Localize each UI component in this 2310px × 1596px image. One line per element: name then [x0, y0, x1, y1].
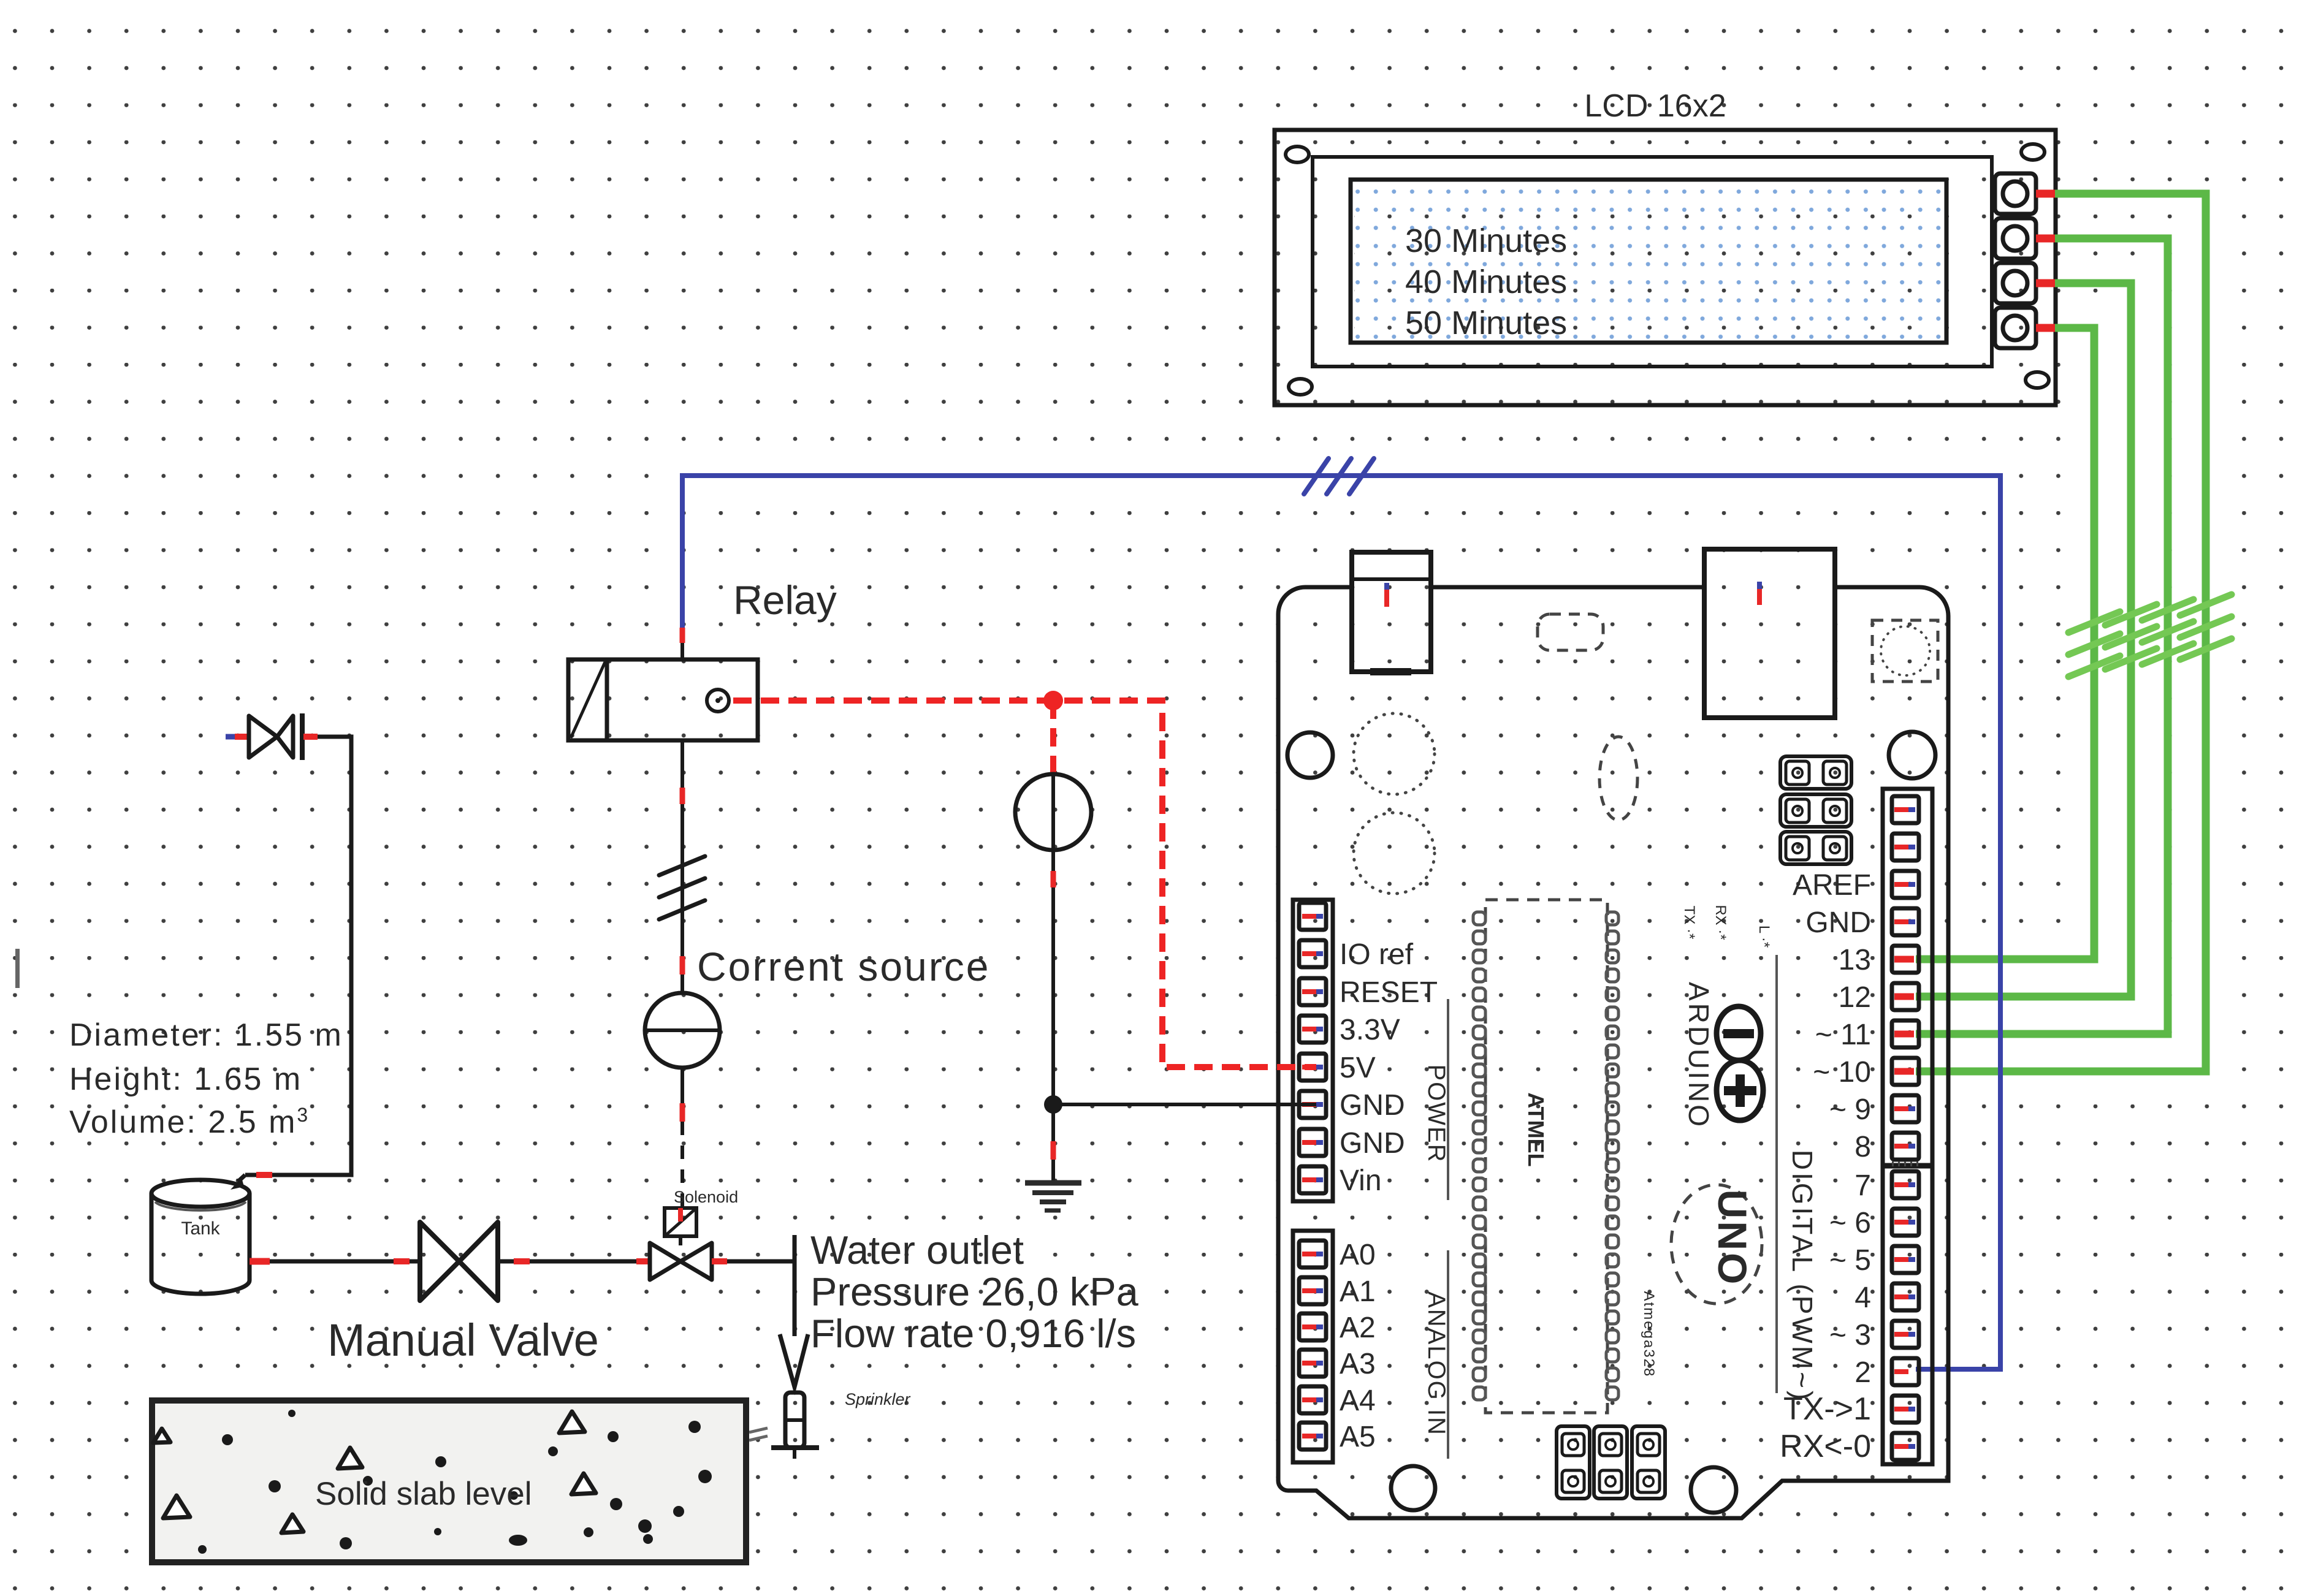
digital pin 7 — [1892, 1171, 1919, 1198]
digital pin nc — [1892, 796, 1919, 823]
analog header pin A3 — [1299, 1350, 1326, 1377]
digital pin 8 — [1892, 1133, 1919, 1160]
ICSP pad column 1 — [1557, 1426, 1590, 1499]
digital pin GND — [1892, 908, 1919, 935]
analog header pin A1 — [1299, 1277, 1326, 1304]
Arduino UNO board outline — [1278, 587, 1948, 1518]
manual valve — [420, 1222, 498, 1301]
wire junction to ground — [1051, 1104, 1055, 1141]
digital pin 4 — [1892, 1283, 1919, 1310]
digital header bottom — [1883, 1166, 1932, 1464]
minus terminal — [1717, 1006, 1761, 1060]
svg-text:TX ·*: TX ·* — [1681, 906, 1698, 940]
dashed pad rounded rect — [1538, 614, 1603, 650]
analog header pin A4 — [1299, 1386, 1326, 1413]
dotted via circle 1 — [1354, 713, 1435, 794]
solid slab — [152, 1400, 746, 1562]
svg-text:Flow rate 0,916 l/s: Flow rate 0,916 l/s — [810, 1311, 1136, 1356]
svg-text:Solid slab level: Solid slab level — [315, 1476, 532, 1512]
svg-text:A0: A0 — [1340, 1239, 1376, 1271]
LCD screen — [1351, 180, 1946, 343]
pipe tank to manual valve — [270, 1260, 394, 1264]
jumper pad row 2 — [1780, 794, 1851, 827]
LCD screw hole 2 — [2021, 144, 2045, 160]
green wire bus slashes — [2068, 595, 2232, 677]
LCD pin 4 connector — [1995, 308, 2036, 348]
power header pin GND — [1299, 1129, 1326, 1156]
svg-text:LCD 16x2: LCD 16x2 — [1584, 88, 1726, 124]
digital pin nc — [1892, 834, 1919, 861]
LCD screw hole 4 — [2026, 372, 2049, 388]
wire green LCD pin 1 to Arduino — [1916, 194, 2206, 1071]
analog header pin A2 — [1299, 1313, 1326, 1340]
LCD pin 1 connector — [1995, 173, 2036, 214]
svg-text:GND: GND — [1340, 1089, 1405, 1122]
svg-text:Sprinkler: Sprinkler — [845, 1390, 911, 1408]
LCD pin 2 connector — [1995, 218, 2036, 259]
svg-text:RX<-0: RX<-0 — [1780, 1429, 1871, 1464]
svg-text:Water outlet: Water outlet — [810, 1228, 1024, 1272]
power header pin GND — [1299, 1091, 1326, 1118]
voltage source — [1051, 774, 1055, 871]
power header pin 5V — [1299, 1054, 1326, 1081]
svg-text:4: 4 — [1854, 1282, 1871, 1314]
wire break slashes — [659, 856, 705, 919]
svg-text:ATMEL: ATMEL — [1523, 1092, 1549, 1166]
relay contact circle — [707, 690, 729, 712]
analog header — [1293, 1231, 1333, 1462]
svg-text:A3: A3 — [1340, 1348, 1376, 1380]
check valve — [249, 713, 302, 760]
svg-text:ARDUINO: ARDUINO — [1683, 982, 1715, 1129]
svg-text:Tank: Tank — [181, 1218, 220, 1239]
svg-text:RESET: RESET — [1340, 976, 1438, 1009]
red junction node — [1043, 691, 1063, 710]
svg-text:5V: 5V — [1340, 1052, 1376, 1084]
svg-text:2: 2 — [1854, 1356, 1871, 1389]
svg-text:Volume: 2.5 m3: Volume: 2.5 m3 — [69, 1104, 310, 1140]
svg-text:8: 8 — [1854, 1131, 1871, 1163]
svg-text:Solenoid: Solenoid — [674, 1188, 738, 1206]
power jack — [1704, 549, 1835, 718]
mounting hole bottom-right — [1691, 1467, 1736, 1513]
wire green LCD pin 2 to Arduino — [1916, 238, 2168, 1034]
LCD pin 1 red stub — [2036, 190, 2059, 198]
digital header top — [1883, 789, 1932, 1165]
scrollbar artifact left margin — [15, 949, 20, 988]
svg-text:POWER: POWER — [1423, 1064, 1450, 1163]
svg-text:50 Minutes: 50 Minutes — [1405, 305, 1567, 341]
relay top pin — [680, 628, 685, 643]
ground symbol — [1025, 1183, 1081, 1210]
analog header pin A5 — [1299, 1423, 1326, 1450]
check valve inlet stubs — [226, 734, 235, 740]
svg-text:Pressure 26,0 kPa: Pressure 26,0 kPa — [810, 1269, 1139, 1314]
current source circle — [645, 993, 720, 1068]
svg-text:Corrent source: Corrent source — [697, 944, 991, 989]
svg-text:~ 5: ~ 5 — [1829, 1244, 1871, 1277]
dashed wire to solenoid — [680, 1122, 684, 1208]
node GND junction — [1044, 1095, 1062, 1114]
svg-text:GND: GND — [1340, 1127, 1405, 1160]
digital pin RX<-0 — [1892, 1433, 1919, 1460]
power header pin nc — [1299, 903, 1326, 930]
wire check valve to tank — [245, 737, 351, 1175]
UNO logo — [1671, 1185, 1762, 1304]
ICSP pad column 2 — [1594, 1426, 1627, 1499]
mounting hole top-right — [1889, 732, 1935, 778]
svg-text:A2: A2 — [1340, 1312, 1376, 1344]
digital pin TX->1 — [1892, 1396, 1919, 1423]
svg-text:7: 7 — [1854, 1169, 1871, 1202]
wire red dashed relay to 5V — [733, 701, 1316, 1067]
jumper pad row 1 — [1780, 756, 1851, 789]
sprinkler — [785, 1393, 804, 1448]
digital pin ~ 6 — [1892, 1209, 1919, 1236]
svg-text:A4: A4 — [1340, 1385, 1376, 1417]
svg-text:3.3V: 3.3V — [1340, 1014, 1400, 1046]
svg-text:~ 9: ~ 9 — [1829, 1093, 1871, 1126]
power header pin RESET — [1299, 978, 1326, 1005]
plus terminal — [1717, 1060, 1763, 1120]
svg-text:ANALOG IN: ANALOG IN — [1423, 1291, 1450, 1436]
svg-text:Vin: Vin — [1340, 1165, 1382, 1197]
svg-text:AREF: AREF — [1793, 869, 1871, 902]
power header pin 3.3V — [1299, 1016, 1326, 1043]
LCD pin 4 red stub — [2036, 324, 2059, 332]
digital pin 2 — [1892, 1358, 1919, 1385]
dashed square top-right — [1872, 620, 1938, 682]
wire blue relay to Arduino pin 2 — [682, 476, 2000, 1369]
LCD pin 3 connector — [1995, 263, 2036, 303]
USB connector — [1352, 552, 1431, 672]
svg-text:RX ·*: RX ·* — [1712, 905, 1729, 940]
digital pin AREF — [1892, 871, 1919, 898]
relay bottom pin / wire to current source — [680, 740, 684, 788]
svg-text:~ 3: ~ 3 — [1829, 1319, 1871, 1351]
tank — [151, 1180, 250, 1294]
LCD pin 2 red stub — [2036, 235, 2059, 243]
svg-text:A5: A5 — [1340, 1421, 1376, 1453]
ICSP pad column 3 — [1632, 1426, 1665, 1499]
svg-text:IO ref: IO ref — [1340, 938, 1414, 971]
svg-text:30 Minutes: 30 Minutes — [1405, 222, 1567, 259]
digital pin ~ 3 — [1892, 1321, 1919, 1348]
digital pin ~ 5 — [1892, 1246, 1919, 1273]
analog header pin A0 — [1299, 1241, 1326, 1267]
svg-text:L ·*: L ·* — [1756, 925, 1772, 948]
header gap dotted mark — [1892, 1161, 1919, 1166]
svg-text:TX->1: TX->1 — [1783, 1391, 1871, 1427]
wire green LCD pin 4 to Arduino — [1916, 328, 2094, 959]
svg-text:Height: 1.65 m: Height: 1.65 m — [69, 1062, 302, 1097]
svg-text:Relay: Relay — [733, 577, 837, 623]
svg-text:~ 11: ~ 11 — [1815, 1019, 1871, 1051]
svg-text:Manual Valve: Manual Valve — [327, 1315, 599, 1366]
svg-text:Diameter: 1.55 m: Diameter: 1.55 m — [69, 1017, 343, 1053]
jumper pad row 3 — [1780, 832, 1851, 864]
power header pin Vin — [1299, 1166, 1326, 1193]
dashed ellipse pad — [1599, 737, 1637, 820]
water outlet drop — [793, 1235, 797, 1336]
current source bottom pin — [680, 1068, 684, 1103]
digital pin ~ 11 — [1892, 1020, 1919, 1047]
svg-text:~ 6: ~ 6 — [1829, 1207, 1871, 1239]
mounting hole bottom-left — [1391, 1466, 1435, 1510]
mounting hole top-left — [1287, 732, 1333, 778]
LCD pin 3 red stub — [2036, 279, 2059, 287]
pipe manual valve to solenoid valve — [498, 1260, 514, 1264]
relay body — [568, 659, 758, 740]
LCD screw hole 3 — [1289, 379, 1312, 395]
svg-text:Atmega328: Atmega328 — [1641, 1291, 1657, 1378]
ATMEL chip dashed outline — [1485, 900, 1607, 1413]
dotted via circle 2 — [1354, 813, 1435, 894]
digital pin 13 — [1892, 946, 1919, 973]
red dashed branch to source — [1050, 701, 1056, 774]
blue wire bus slashes — [1304, 458, 1374, 494]
wire junction to GND pin — [1053, 1103, 1316, 1106]
svg-text:UNO: UNO — [1710, 1190, 1755, 1287]
power header — [1293, 900, 1333, 1201]
wire green LCD pin 3 to Arduino — [1916, 283, 2131, 997]
svg-text:~ 10: ~ 10 — [1813, 1056, 1871, 1089]
svg-text:GND: GND — [1805, 906, 1871, 939]
svg-text:12: 12 — [1839, 981, 1871, 1014]
svg-text:13: 13 — [1839, 944, 1871, 976]
svg-text:A1: A1 — [1340, 1275, 1376, 1308]
digital pin ~ 10 — [1892, 1058, 1919, 1085]
svg-text:DIGITAL (PWM~): DIGITAL (PWM~) — [1786, 1150, 1818, 1403]
pipe solenoid to water outlet — [727, 1260, 795, 1264]
LCD screw hole 1 — [1286, 146, 1309, 162]
relay coil diagonal — [571, 662, 605, 738]
svg-text:40 Minutes: 40 Minutes — [1405, 264, 1567, 300]
LCD inner bezel — [1313, 157, 1992, 367]
digital pin 12 — [1892, 983, 1919, 1010]
power header pin IO ref — [1299, 940, 1326, 967]
LCD outer board — [1275, 130, 2056, 405]
digital pin ~ 9 — [1892, 1095, 1919, 1122]
relay coil divider — [605, 659, 609, 740]
tank outlet red stub — [250, 1258, 270, 1265]
